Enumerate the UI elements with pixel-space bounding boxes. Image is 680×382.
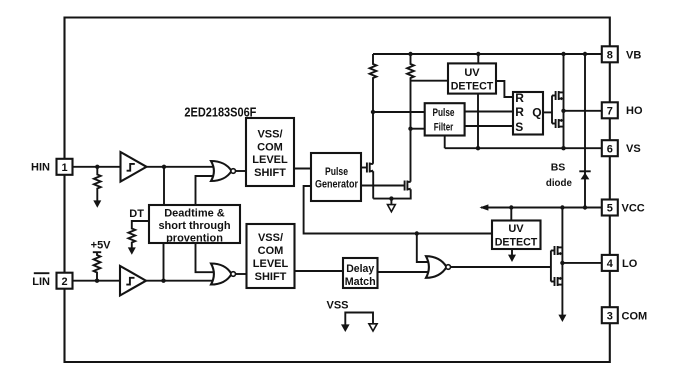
node VS/HS column (561, 146, 565, 150)
node rail/R2 (408, 52, 412, 56)
wire VS rail (445, 147, 602, 149)
svg-text:LIN: LIN (32, 276, 50, 288)
deadtime block (149, 205, 240, 244)
arrow UV2 output down (filled) (508, 249, 516, 262)
wire R1 column to pulse filter input 1 (373, 111, 425, 113)
svg-text:COM: COM (622, 311, 648, 323)
supply tick +5V (93, 251, 101, 253)
latch R R S Q (513, 91, 543, 134)
svg-text:HIN: HIN (31, 162, 50, 174)
resistor R2 (407, 54, 414, 182)
svg-text:VCC: VCC (622, 202, 645, 214)
transistor LS low (551, 277, 563, 286)
svg-text:UV: UV (508, 223, 524, 235)
svg-text:UV: UV (464, 67, 480, 79)
wire G3 output to LS gate (451, 266, 551, 268)
IC boundary frame (65, 18, 610, 363)
BS diode (579, 54, 590, 208)
svg-text:LEVEL: LEVEL (252, 154, 288, 166)
svg-text:DT: DT (129, 208, 144, 220)
node VCC/BS diode (583, 205, 587, 209)
svg-text:VSS: VSS (326, 300, 348, 312)
wire LS output to pin 4 (562, 262, 602, 264)
node long wire / NOR G3 branch (415, 231, 419, 235)
arrow VSS right (open) (369, 324, 377, 331)
node rail/BS diode (583, 52, 587, 56)
NOR gate G3 (426, 256, 451, 278)
resistor R-HIN pulldown (94, 167, 101, 202)
svg-text:short through: short through (158, 220, 230, 232)
wire junction down to deadtime box (163, 167, 165, 205)
svg-text:Generator: Generator (315, 179, 359, 191)
wire HIN to buffer (73, 166, 121, 168)
node HIN/resistor junction (95, 165, 99, 169)
wire pulse generator to M1 gate (361, 167, 367, 169)
node LIN/resistor junction (95, 279, 99, 283)
pin 3 (602, 307, 618, 323)
svg-text:VSS/: VSS/ (258, 232, 283, 244)
wire LS gate bus (550, 251, 552, 282)
wire LIN to buffer 2 (73, 280, 121, 282)
wire HS column VB to VS (563, 54, 565, 148)
svg-text:Delay: Delay (346, 263, 375, 275)
wire junction up to deadtime box (163, 243, 165, 281)
node VCC/UV2 (509, 205, 513, 209)
block Pulse Filter (425, 103, 465, 135)
node rail/HS column (561, 52, 565, 56)
wire LS column VCC down (561, 208, 563, 316)
schmitt buffer U2 (LIN) (120, 266, 146, 296)
wire deadtime to NOR G2 top input (196, 243, 214, 272)
node HS output (561, 109, 565, 113)
transistor LS high (output to LO) (551, 246, 563, 255)
resistor R-5V pullup (94, 252, 101, 281)
resistor R-DT (128, 221, 149, 249)
svg-text:VS: VS (626, 143, 641, 155)
svg-text:Deadtime &: Deadtime & (164, 208, 225, 220)
svg-text:Pulse: Pulse (325, 166, 348, 178)
svg-text:diode: diode (546, 177, 572, 189)
label BS diode (546, 161, 572, 189)
node rail/UV1 (476, 52, 480, 56)
arrow VCC rail (left, filled) (480, 204, 489, 210)
ground (open arrow) for M1/M2 (388, 199, 396, 212)
svg-text:VB: VB (626, 49, 641, 61)
wire UV1 bottom to VS rail (477, 94, 479, 149)
svg-text:HO: HO (626, 105, 643, 117)
svg-text:4: 4 (607, 258, 614, 270)
svg-text:Match: Match (345, 276, 376, 288)
ground arrow (filled) under R-DT (128, 247, 136, 254)
wire UV1 output to latch R (496, 81, 513, 97)
pin 6 (602, 140, 618, 156)
block VSS/COM LEVEL SHIFT (low side) (247, 224, 295, 288)
node R1/pulse filter wire (371, 110, 375, 114)
wire M2 source down / bottom rail (373, 189, 411, 198)
wire R2 to UV1 input (411, 80, 449, 82)
svg-text:DETECT: DETECT (495, 237, 538, 249)
transistor HS high (output to HO) (552, 91, 564, 100)
svg-text:VSS/: VSS/ (257, 129, 282, 141)
svg-text:SHIFT: SHIFT (254, 167, 286, 179)
transistor M1 (level shift) (367, 163, 373, 173)
pin 5 (602, 200, 618, 216)
wire HS output to pin 7 (564, 110, 603, 112)
label LIN (with overline) (32, 273, 50, 288)
transistor HS low (552, 119, 564, 128)
svg-text:R: R (515, 105, 524, 119)
svg-text:7: 7 (607, 105, 613, 117)
wire rail to UV1 top (477, 54, 479, 63)
wire pulse filter out 1 to latch R (465, 111, 513, 113)
block Pulse Generator (311, 153, 361, 201)
svg-text:Q: Q (532, 106, 541, 120)
pin 7 (602, 102, 618, 118)
VSS bracket wire (345, 313, 373, 326)
wire R2 column to pulse filter input 2 (411, 128, 425, 130)
wire HS gate bus (551, 96, 553, 124)
schmitt buffer U1 (HIN) (121, 152, 147, 182)
node ground stem (389, 196, 393, 200)
NOR gate G1 (211, 161, 236, 181)
svg-text:8: 8 (607, 49, 613, 61)
wire buffer2 output to NOR G2 (146, 280, 213, 282)
svg-text:LEVEL: LEVEL (253, 258, 289, 270)
wire G2 output to level shift 2 (236, 273, 247, 275)
svg-text:3: 3 (607, 310, 613, 322)
svg-text:SHIFT: SHIFT (255, 271, 287, 283)
wire branch down to NOR G3 top input (417, 234, 428, 263)
svg-text:Pulse: Pulse (433, 107, 455, 119)
transistor M2 (level shift) (405, 181, 411, 191)
node buffer2 output junction (161, 279, 165, 283)
arrow VSS left (filled) (341, 324, 350, 332)
svg-text:provention: provention (166, 232, 223, 244)
node R2/pulse filter wire (408, 127, 412, 131)
svg-text:BS: BS (551, 161, 566, 173)
wire VCC to UV2 top (510, 208, 512, 221)
wire M1 source down (372, 171, 374, 198)
pin 2 (57, 273, 73, 289)
arrow LS column bottom (filled) (558, 315, 566, 322)
node VCC/LS column (560, 205, 564, 209)
wire delay match to NOR G3 (378, 271, 429, 273)
node LS output (560, 261, 564, 265)
svg-text:R: R (515, 91, 524, 105)
svg-text:DETECT: DETECT (451, 81, 494, 93)
node VS/UV1 (476, 146, 480, 150)
wire level shift 2 to delay match (295, 270, 344, 272)
pin 8 (602, 46, 618, 62)
wire level shift to pulse generator (294, 168, 311, 170)
block UV DETECT (low side) (492, 221, 541, 250)
resistor R1 (370, 54, 377, 164)
wire pulse generator to M2 gate (361, 185, 405, 187)
wire pulse filter bottom to VS rail (444, 136, 446, 149)
pin 4 (602, 255, 618, 271)
svg-text:S: S (515, 120, 523, 134)
wire G1 output to level shift (236, 170, 247, 172)
wire VCC rail (481, 207, 602, 209)
svg-text:+5V: +5V (91, 239, 112, 251)
block UV DETECT (high side) (448, 63, 496, 93)
svg-text:Filter: Filter (434, 121, 454, 133)
svg-text:COM: COM (258, 245, 284, 257)
ground arrow (filled) under R-HIN (93, 200, 101, 207)
block VSS/COM LEVEL SHIFT (high side) (246, 118, 294, 186)
svg-text:1: 1 (61, 162, 67, 174)
NOR gate G2 (211, 264, 236, 285)
pin 1 (57, 159, 73, 175)
block Delay Match (343, 258, 378, 288)
svg-text:2: 2 (61, 276, 67, 288)
wire latch Q to HS gate (543, 111, 552, 113)
svg-text:LO: LO (622, 258, 638, 270)
node buffer1 output junction (162, 165, 166, 169)
svg-text:5: 5 (607, 203, 613, 215)
wire pulse generator left to UV detect 2 (long) (304, 186, 492, 234)
wire pulse filter out 2 to latch S (465, 125, 513, 127)
wire NOR G1 lower input (196, 176, 214, 205)
svg-text:COM: COM (257, 141, 283, 153)
wire buffer1 output to NOR G1 (147, 166, 214, 168)
svg-text:6: 6 (607, 143, 613, 155)
wire VB top rail (373, 53, 602, 55)
